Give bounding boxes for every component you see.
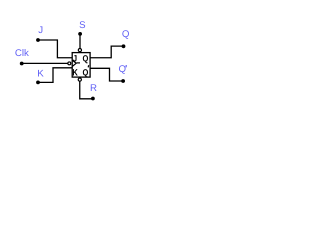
- node Q dot: [122, 44, 126, 48]
- node S dot: [78, 32, 82, 36]
- wire R input (bottom): [80, 81, 93, 99]
- wire K input: [38, 68, 72, 83]
- node Q' dot: [121, 79, 125, 83]
- wire Q output: [90, 46, 123, 58]
- svg-text:K: K: [72, 67, 78, 77]
- flip-flop U1 body: [72, 53, 90, 78]
- svg-text:J: J: [38, 25, 43, 36]
- svg-text:K: K: [37, 68, 44, 79]
- svg-text:S: S: [79, 20, 86, 31]
- svg-text:Q: Q: [122, 29, 130, 40]
- node J dot: [36, 38, 40, 42]
- svg-text:Q: Q: [119, 64, 127, 75]
- wire J input: [38, 40, 72, 58]
- reset bubble (bottom): [78, 78, 81, 81]
- svg-text:Q: Q: [82, 67, 88, 77]
- wire Clk input: [22, 62, 68, 64]
- wire Q' output: [90, 68, 123, 81]
- node R dot: [91, 97, 95, 101]
- clock bubble: [68, 62, 71, 65]
- clock dash inside: [76, 62, 80, 64]
- svg-text:Clk: Clk: [15, 48, 29, 59]
- set bubble (top): [78, 49, 81, 52]
- node Clk dot: [20, 62, 24, 66]
- svg-text:Q: Q: [82, 53, 88, 63]
- svg-text:R: R: [90, 83, 97, 94]
- node K dot: [36, 81, 40, 85]
- clock triangle: [72, 60, 76, 66]
- wire S input (top): [79, 34, 81, 49]
